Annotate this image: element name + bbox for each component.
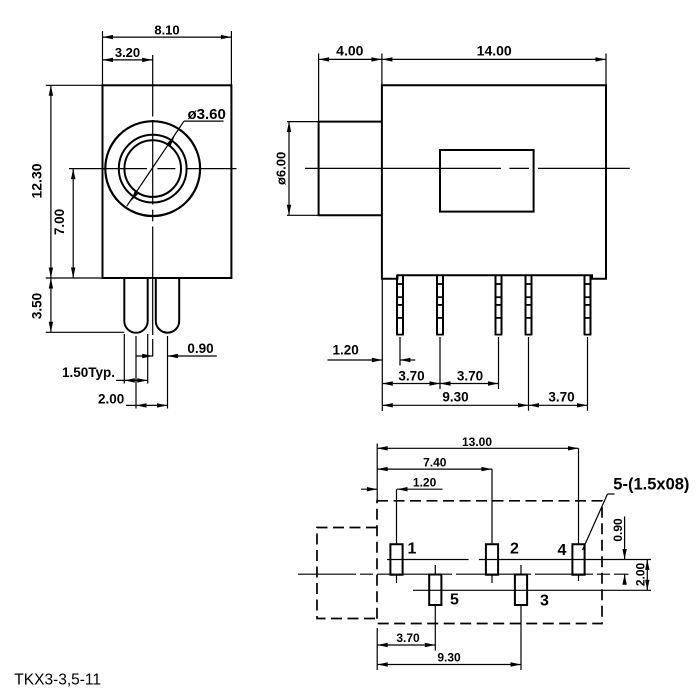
- bottom view upper row line: [387, 559, 469, 561]
- svg-text:0.90: 0.90: [187, 341, 213, 356]
- dimension o6.00: [288, 122, 290, 216]
- side view pin 4: [525, 275, 527, 334]
- dimension 0.90 front: [136, 355, 153, 357]
- dimension 3.70 a: [382, 383, 440, 385]
- svg-text:8.10: 8.10: [154, 22, 179, 37]
- side view pin 2: [436, 275, 438, 334]
- side view inner rect: [440, 150, 534, 212]
- svg-text:3.70: 3.70: [398, 368, 424, 383]
- front pin right: [155, 278, 157, 321]
- svg-text:2.00: 2.00: [633, 562, 647, 586]
- svg-text:3.70: 3.70: [548, 389, 574, 404]
- extension lines 8.10: [102, 31, 104, 85]
- stub pad1: [396, 489, 398, 544]
- bottom view pad 2: [486, 544, 498, 575]
- dimension 14.00: [382, 58, 606, 60]
- dimension 1.20 bottom: [361, 488, 377, 490]
- svg-text:7.40: 7.40: [423, 455, 447, 469]
- side view body: [382, 85, 606, 278]
- dimension 3.70 c: [529, 404, 588, 406]
- bottom view pad 4: [572, 544, 584, 575]
- svg-text:ø3.60: ø3.60: [188, 106, 226, 123]
- ext line bottom-left bottom: [376, 628, 378, 670]
- svg-text:ø6.00: ø6.00: [273, 152, 288, 185]
- dimension 3.70 b: [440, 383, 499, 385]
- bottom view pad 5: [429, 575, 441, 606]
- ext line side pin1: [399, 337, 401, 366]
- dimension 3.20: [103, 59, 153, 61]
- svg-text:2: 2: [510, 541, 519, 558]
- extension lines o6.00: [287, 121, 319, 123]
- dimension 1.50Typ: [116, 379, 148, 381]
- extension lines 4.00 14.00: [318, 54, 320, 122]
- dimension 8.10: [103, 36, 232, 38]
- svg-text:14.00: 14.00: [477, 43, 512, 59]
- ext line side pin5: [587, 337, 589, 411]
- side view pin 3: [495, 275, 497, 334]
- dimension 1.20 side: [328, 359, 383, 361]
- dimension 0.90 bottom: [624, 517, 626, 560]
- svg-text:7.00: 7.00: [52, 209, 67, 235]
- dimension 3.50: [50, 278, 52, 332]
- svg-text:2.00: 2.00: [98, 391, 124, 406]
- svg-text:13.00: 13.00: [462, 435, 492, 449]
- dimension 7.00: [72, 169, 74, 278]
- dimension 3.70 bottom: [377, 644, 435, 646]
- stub pad4: [578, 448, 580, 544]
- dimension 2.00 front: [126, 404, 168, 406]
- stub pad5: [434, 565, 436, 575]
- bottom view pad 3: [515, 575, 527, 606]
- extension line pin bottom: [46, 331, 124, 333]
- stub pad3: [520, 565, 522, 575]
- svg-text:3.70: 3.70: [396, 631, 420, 645]
- dimension 12.30: [50, 85, 52, 278]
- bottom view horizontal centerline: [298, 573, 629, 575]
- svg-text:1: 1: [408, 541, 417, 558]
- svg-text:3.50: 3.50: [30, 293, 45, 319]
- svg-text:4: 4: [558, 542, 567, 559]
- ext line side pin2: [439, 337, 441, 389]
- svg-text:3.70: 3.70: [457, 368, 483, 383]
- front pin left: [123, 278, 125, 321]
- ext line pin-left center: [135, 336, 137, 409]
- svg-text:1.20: 1.20: [413, 475, 437, 489]
- ext line pin-left right edge: [147, 334, 149, 384]
- svg-text:3: 3: [540, 593, 549, 610]
- ext line pin-right center: [167, 336, 169, 409]
- dimension 7.40: [377, 468, 492, 470]
- svg-text:4.00: 4.00: [336, 43, 363, 59]
- leader line o3.60 with arrows: [127, 121, 184, 206]
- bottom view outline (dashed): [377, 501, 602, 624]
- front view body: [103, 85, 232, 278]
- svg-text:9.30: 9.30: [442, 389, 468, 404]
- bottom view pad 1: [390, 544, 402, 575]
- front view vertical centerline: [152, 55, 154, 117]
- dimension 2.00 bottom: [646, 560, 648, 591]
- ext line side body left: [381, 279, 383, 411]
- svg-text:5-(1.5x08): 5-(1.5x08): [613, 476, 689, 494]
- bottom view lower row line: [413, 589, 651, 591]
- side view pin 1: [396, 275, 398, 334]
- svg-text:3.20: 3.20: [115, 45, 140, 60]
- bottom view barrel outline (dashed): [317, 528, 377, 619]
- leader 5-(1.5x08): [608, 493, 615, 495]
- dimension 9.30 bottom: [377, 664, 521, 666]
- dimension 9.30 side: [382, 404, 528, 406]
- ext line bottom-left top: [376, 444, 378, 501]
- front view middle circle: [119, 135, 187, 203]
- ext line side pin3: [498, 337, 500, 389]
- side view horizontal centerline: [305, 167, 501, 169]
- front view horizontal centerline: [69, 168, 147, 170]
- svg-text:1.20: 1.20: [333, 343, 359, 358]
- dimension 13.00: [377, 447, 578, 449]
- svg-text:12.30: 12.30: [29, 163, 45, 198]
- stub pad2: [491, 469, 493, 544]
- svg-text:0.90: 0.90: [611, 518, 625, 542]
- side view pin 5: [584, 275, 586, 334]
- svg-text:TKX3-3,5-11: TKX3-3,5-11: [14, 672, 101, 689]
- svg-text:1.50Typ.: 1.50Typ.: [62, 365, 115, 380]
- ext line side pin4: [528, 337, 530, 411]
- dimension 4.00: [319, 58, 382, 60]
- side view barrel: [319, 122, 382, 216]
- ext line pin-left left edge: [123, 334, 125, 384]
- front view outer circle (bushing): [105, 121, 200, 216]
- extension lines 12.30: [46, 84, 103, 86]
- svg-text:9.30: 9.30: [437, 651, 461, 665]
- front view jack hole circle o3.60: [124, 140, 181, 197]
- svg-text:5: 5: [450, 592, 459, 609]
